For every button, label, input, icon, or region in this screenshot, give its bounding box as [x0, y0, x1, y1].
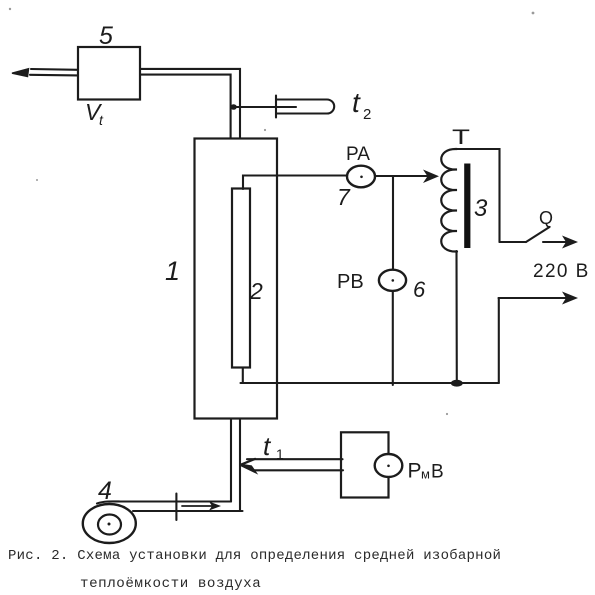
inlet duct below calorimeter — [231, 419, 240, 512]
svg-text:t: t — [99, 112, 104, 128]
wire right branch down to bottom bus — [498, 298, 500, 383]
millivoltmeter box — [341, 432, 389, 497]
arrowhead into coil — [423, 170, 439, 184]
label t2 — [352, 87, 371, 123]
svg-text:6: 6 — [413, 277, 426, 302]
wire junction PA line down to voltmeter PB — [392, 177, 394, 270]
wire thermometer stem — [234, 106, 296, 108]
svg-text:220 В: 220 В — [533, 261, 590, 282]
node (thermometer tap on duct) — [230, 104, 236, 110]
outlet pipe (air exit, left of box 5) — [30, 69, 78, 75]
svg-text:t: t — [352, 87, 361, 118]
svg-text:3: 3 — [474, 195, 488, 222]
inlet pipe horizontal from fan — [97, 501, 243, 511]
wire heater bottom lead — [242, 368, 244, 384]
svg-text:Q: Q — [539, 208, 553, 228]
label PmV — [408, 460, 444, 483]
svg-text:t: t — [263, 431, 272, 461]
svg-text:1: 1 — [276, 446, 284, 462]
label Vt — [85, 99, 104, 128]
supply arrow lower — [499, 292, 579, 305]
svg-text:Рис. 2. Схема установки для о: Рис. 2. Схема установки для определения … — [8, 547, 501, 564]
pipe from box 5 to vertical duct — [140, 69, 240, 139]
svg-text:В: В — [431, 462, 444, 483]
t1 sensing tube arrow — [241, 459, 344, 472]
svg-text:2: 2 — [363, 106, 371, 123]
svg-text:теплоёмкости воздуха: теплоёмкости воздуха — [80, 576, 261, 592]
svg-text:4: 4 — [98, 477, 112, 505]
heater element 2 — [232, 189, 250, 368]
svg-text:5: 5 — [99, 22, 113, 50]
thermometer t2 — [276, 96, 334, 118]
svg-text:1: 1 — [165, 256, 180, 286]
wire heater top to ammeter PA — [243, 176, 347, 190]
wire PB down to bottom bus — [392, 291, 394, 385]
label t1 — [263, 431, 284, 462]
svg-text:T: T — [452, 126, 470, 149]
transformer core 3 — [464, 164, 470, 249]
voltmeter PB (6) — [379, 270, 406, 291]
bottom bus wire — [241, 382, 499, 384]
calorimeter vessel 1 — [195, 139, 278, 419]
fan 4 (blower) — [83, 504, 136, 543]
switch Q — [500, 227, 550, 242]
outlet arrowhead — [12, 69, 29, 77]
wire coil bottom down to bottom bus — [455, 251, 457, 383]
svg-text:м: м — [421, 467, 430, 482]
svg-text:PB: PB — [337, 271, 364, 293]
transformer primary coil — [441, 149, 457, 252]
svg-text:PA: PA — [346, 144, 370, 165]
wire PA to transformer primary — [375, 175, 432, 177]
supply arrow upper (to 220V) — [543, 236, 578, 249]
box 5 (gas meter V_t) — [78, 47, 140, 100]
pipe tick mark — [175, 494, 177, 521]
junction dot on bottom bus — [451, 380, 463, 387]
flow arrow in pipe — [182, 502, 221, 511]
svg-text:7: 7 — [337, 184, 351, 210]
svg-text:Р: Р — [408, 460, 422, 483]
svg-text:2: 2 — [249, 278, 263, 304]
wire coil top to switch — [457, 149, 500, 242]
ammeter PA (7) — [347, 166, 375, 188]
millivoltmeter dial PmV — [375, 454, 403, 477]
